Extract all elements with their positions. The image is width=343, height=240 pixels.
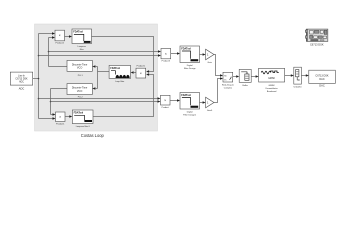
svg-text:Product1: Product1 [56,122,65,125]
svg-text:PLL2: PLL2 [78,97,84,99]
wire L3 to Product in1 [39,98,158,100]
Product3 [161,49,171,59]
wire V3 sine net vertical [50,89,52,115]
GMSK Demodulator Baseband [259,68,285,82]
svg-text:PLL1: PLL1 [78,75,84,77]
svg-text:Lowpass filter1: Lowpass filter1 [76,125,91,128]
svg-text:Real-Imag to: Real-Imag to [222,84,235,87]
Unbuffer [294,67,302,84]
Real-Imag to Complex [223,72,233,82]
svg-text:Digital: Digital [187,110,193,113]
svg-text:Lowpass: Lowpass [78,46,86,48]
wire Gain out down to Real-Imag in1 [214,55,220,76]
Buffer [239,69,251,82]
svg-text:FDATool: FDATool [181,48,191,51]
svg-text:FDATool: FDATool [74,112,84,115]
svg-text:Complex: Complex [224,88,233,90]
wire Real-Imag out to Buffer [233,76,237,78]
svg-text:Demodulator: Demodulator [266,87,278,90]
wire Lowpass filter1 out up to Product0 in2 [93,75,154,117]
wire loop filter riser to PLL2 input (flipped) [96,88,98,90]
wire Digital Filter Design out to Gain [200,54,203,56]
svg-text:C6713 DSK: C6713 DSK [315,75,329,78]
svg-text:VCO: VCO [77,67,82,70]
svg-text:Product: Product [162,106,170,109]
svg-text:FDATool: FDATool [110,67,120,70]
wire V1 bottom to Product1 in2 [39,118,53,120]
Product1 [56,112,66,122]
Gain [206,49,214,60]
wire Product1 out to Lowpass filter1 [65,116,70,118]
svg-text:GMSK: GMSK [269,85,276,87]
C6713 DSK target board block [305,29,328,41]
wire V1 top to Product2 in1 [39,33,53,35]
svg-text:×: × [165,52,167,56]
svg-text:FDATool: FDATool [73,31,83,34]
node junction L3 [38,98,40,100]
wire L4 to Product in2 [51,101,158,103]
Product [161,95,171,105]
wire L1 to Product3 in1 [49,51,159,53]
svg-text:VCO: VCO [77,90,82,93]
wire Product2 out to Lowpass filter [65,36,70,38]
svg-text:Digital: Digital [187,64,193,67]
DAC block (C6713 DSK DAC) [309,70,336,83]
svg-text:Filter Design1: Filter Design1 [183,113,197,116]
svg-text:DAC: DAC [319,84,325,88]
wire VCO2 out to V3 [51,88,68,90]
wire loop filter riser to PLL1 input (flipped) [96,66,98,68]
svg-text:×: × [59,34,61,38]
svg-text:ADC: ADC [19,86,25,90]
svg-text:C6713 DSK: C6713 DSK [15,79,28,81]
Costas Loop area (grey annotation region) [35,24,158,131]
Gain1 [206,97,214,108]
svg-text:Costas Loop: Costas Loop [81,133,105,138]
wire V2 cosine net vertical [48,38,50,67]
wire Loop filter out to VCO riser [98,67,110,89]
wire Gain1 out up to Real-Imag in2 [214,79,220,103]
wire Buffer out to GMSK [251,76,256,78]
wire V1 ADC net vertical [38,34,40,119]
arrow into Product0 in2 [146,73,149,76]
wire VCO1 out to V2 [49,66,68,68]
svg-text:×: × [164,98,166,102]
svg-text:FDATool: FDATool [181,94,191,97]
svg-text:ADC: ADC [19,81,24,84]
Product2 [55,30,65,41]
wire ADC out to node V1 [33,78,39,80]
wire L2 to Product3 in2 [39,55,159,57]
wire Product0 out to Loop filter in [134,72,136,74]
svg-text:×: × [59,115,61,119]
svg-text:Product0: Product0 [137,65,146,68]
svg-text:Buffer: Buffer [242,84,248,87]
Discrete-Time VCO PLL2 [67,84,92,95]
Lowpass filter1 (FDATool block) [72,110,93,124]
wire V3 bottom to Product1 in1 [51,114,53,116]
svg-text:Unbuffer: Unbuffer [294,86,302,89]
svg-text:C6713 DSK: C6713 DSK [310,42,324,46]
svg-text:Filter Design: Filter Design [184,67,197,70]
svg-text:Line In: Line In [18,76,26,78]
wire V2 top to Product2 in2 [49,37,53,39]
svg-text:Product3: Product3 [162,60,171,63]
wire Lowpass filter out down to Product0 in1 [92,37,154,72]
node junction L4 [50,101,52,103]
Lowpass filter (FDATool block) [72,29,92,44]
svg-text:Loop filter: Loop filter [115,80,124,83]
Digital Filter Design1 (FDATool block) [180,93,200,110]
Discrete-Time VCO PLL1 [67,60,92,71]
ADC block (Line In C6713 DSK ADC) [10,72,32,85]
svg-text:×: × [140,71,142,75]
node junction ADC-in [38,78,40,80]
svg-text:GMSK: GMSK [268,77,275,80]
Digital Filter Design (FDATool block) [180,46,200,63]
Loop filter (FDATool block) [109,65,130,78]
svg-text:DAC: DAC [319,78,324,81]
wire Unbuffer out to DAC [301,75,306,77]
wire Digital Filter Design1 out to Gain1 [200,102,203,104]
svg-text:Product2: Product2 [56,41,65,44]
wire Product3 out to Digital Filter Design [171,53,177,55]
node junction L1 [48,51,50,53]
wire Product out to Digital Filter Design1 [170,100,177,102]
node junction L2 [38,55,40,57]
svg-text:filter: filter [80,48,84,51]
svg-text:Im: Im [224,80,227,82]
wire GMSK out to Unbuffer [285,75,291,77]
svg-text:Baseband: Baseband [267,91,277,93]
svg-text:Gain1: Gain1 [207,110,213,112]
